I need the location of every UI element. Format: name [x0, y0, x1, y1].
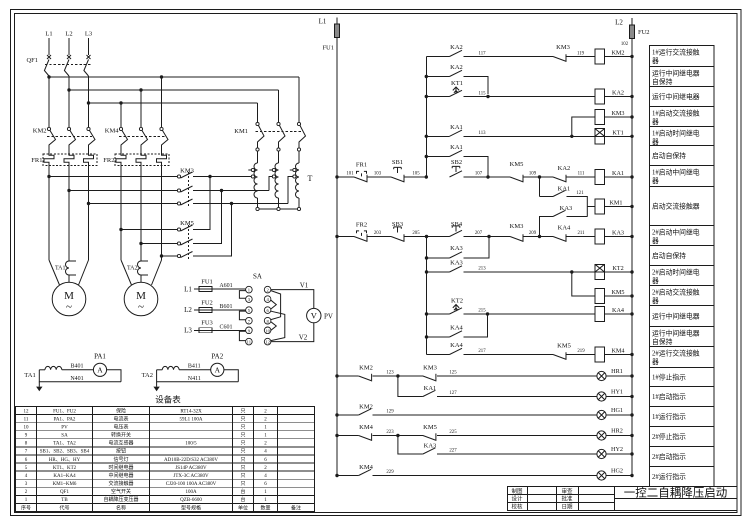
svg-text:KM2: KM2	[359, 365, 373, 372]
svg-text:KA4: KA4	[612, 307, 624, 314]
svg-text:QF1: QF1	[60, 490, 69, 495]
svg-text:KA2: KA2	[450, 44, 463, 51]
svg-text:2#启动时间继电: 2#启动时间继电	[652, 268, 700, 277]
svg-text:225: 225	[449, 430, 457, 435]
svg-text:223: 223	[386, 430, 394, 435]
function label box 9	[650, 226, 715, 246]
svg-text:FU2: FU2	[638, 29, 650, 36]
coil KM5	[572, 272, 595, 296]
svg-text:213: 213	[478, 267, 486, 272]
svg-text:100A: 100A	[185, 490, 197, 495]
svg-text:PV: PV	[324, 312, 333, 320]
svg-text:HR1: HR1	[611, 368, 623, 375]
wire SA right jumpers	[271, 300, 276, 309]
svg-text:台: 台	[240, 488, 245, 495]
svg-text:FR2: FR2	[356, 222, 367, 229]
svg-text:FR2: FR2	[103, 157, 114, 164]
svg-text:只: 只	[240, 457, 245, 463]
contact KA3 selfhold row	[427, 257, 450, 259]
contact KT1 delayed row115	[426, 96, 449, 98]
svg-text:KM1: KM1	[234, 128, 248, 135]
function label box 10	[650, 246, 715, 266]
autotransformer star bar	[258, 208, 300, 210]
wire KM5 input 3	[162, 255, 178, 257]
function label box 7	[650, 166, 715, 187]
svg-text:A: A	[97, 366, 103, 375]
svg-text:205: 205	[412, 231, 420, 236]
svg-text:100/5: 100/5	[185, 442, 197, 447]
contact KA1 row113	[426, 135, 449, 137]
function label box 18	[650, 407, 715, 427]
svg-text:KA3: KA3	[612, 230, 624, 237]
svg-text:自保持: 自保持	[652, 337, 673, 346]
svg-text:KA2: KA2	[558, 165, 571, 172]
svg-text:2#启动交流接触: 2#启动交流接触	[652, 288, 700, 297]
svg-text:TA2: TA2	[127, 266, 138, 272]
wire right control bus	[631, 39, 633, 476]
svg-text:HR2: HR2	[611, 428, 623, 435]
svg-text:器: 器	[652, 57, 659, 65]
svg-text:只: 只	[240, 416, 245, 422]
svg-text:电压表: 电压表	[113, 424, 128, 431]
wire KM5 output risers	[193, 177, 210, 230]
svg-text:器: 器	[652, 297, 659, 305]
svg-text:AD10B-22D/S32 AC380V: AD10B-22D/S32 AC380V	[164, 458, 218, 463]
svg-text:C601: C601	[219, 324, 232, 330]
wire secondary vertical 1	[425, 57, 427, 178]
svg-text:FU1: FU1	[201, 279, 213, 286]
wire bus phase L1	[49, 76, 299, 78]
wire left control bus	[336, 38, 338, 476]
svg-text:V: V	[311, 311, 318, 321]
svg-text:RT14-32X: RT14-32X	[180, 409, 202, 414]
svg-text:日期: 日期	[561, 504, 573, 511]
svg-text:运行中间继电器: 运行中间继电器	[652, 92, 700, 101]
contact KM4 no row229	[335, 474, 338, 477]
svg-text:V2: V2	[299, 334, 308, 342]
svg-text:123: 123	[386, 371, 394, 376]
coil KA3	[595, 229, 605, 244]
svg-text:KM5: KM5	[423, 424, 437, 431]
coil KM1	[587, 206, 595, 208]
function label box 3	[650, 87, 715, 107]
svg-text:B601: B601	[219, 304, 232, 310]
svg-text:227: 227	[449, 449, 457, 454]
svg-text:125: 125	[449, 371, 457, 376]
svg-text:KM3: KM3	[611, 110, 624, 117]
svg-text:~: ~	[66, 301, 72, 313]
svg-text:运行中间继电器: 运行中间继电器	[652, 311, 700, 320]
wire KM3 input 2	[69, 190, 177, 192]
svg-text:QZB-6600: QZB-6600	[180, 498, 202, 503]
contact KA1 row127	[398, 376, 423, 397]
svg-text:127: 127	[449, 391, 457, 396]
svg-text:KT2: KT2	[612, 265, 623, 272]
svg-text:只: 只	[240, 425, 245, 431]
svg-text:启动自保持: 启动自保持	[652, 151, 686, 160]
svg-text:KM4: KM4	[359, 424, 373, 431]
svg-text:KA4: KA4	[450, 325, 463, 332]
contact KA2 row117	[426, 56, 449, 58]
svg-text:HR、HG、HY: HR、HG、HY	[49, 458, 81, 463]
svg-text:11: 11	[24, 417, 29, 422]
svg-text:KA4: KA4	[558, 225, 571, 232]
function label box 14	[650, 327, 715, 347]
wire bus phase L3	[89, 102, 258, 104]
contactor KM1 interlink	[256, 131, 303, 133]
ground symbol PA1	[38, 382, 40, 387]
contact KM2 no row129	[335, 413, 338, 416]
svg-text:119: 119	[577, 52, 585, 57]
svg-text:2#运行指示: 2#运行指示	[652, 472, 686, 481]
svg-text:校核: 校核	[511, 503, 523, 511]
svg-text:FU3: FU3	[201, 320, 213, 327]
svg-text:信号灯: 信号灯	[113, 456, 128, 463]
svg-text:QF1: QF1	[26, 57, 38, 64]
svg-text:B401: B401	[70, 363, 83, 369]
lamp HR1	[597, 371, 606, 380]
svg-text:12: 12	[24, 409, 30, 414]
svg-text:1#运行交流接触: 1#运行交流接触	[652, 48, 700, 57]
svg-text:器: 器	[652, 138, 659, 146]
svg-text:L2: L2	[65, 31, 72, 38]
wire KM5 input 2	[141, 243, 177, 245]
svg-text:KM5: KM5	[180, 220, 194, 227]
svg-text:209: 209	[529, 231, 537, 236]
lamp HY1	[597, 392, 606, 401]
lamp HG1	[597, 410, 606, 419]
autotransformer tap stub 2	[269, 177, 272, 191]
function label box 16	[650, 368, 715, 387]
svg-text:L1: L1	[184, 286, 192, 294]
contact KA2 selfhold row	[426, 76, 449, 78]
svg-text:113: 113	[478, 131, 486, 136]
svg-text:KM2: KM2	[611, 50, 624, 57]
svg-text:中间继电器: 中间继电器	[108, 472, 133, 479]
contactor KM4 interlink	[119, 136, 165, 138]
svg-text:CJ20-100 100A AC380V: CJ20-100 100A AC380V	[166, 482, 217, 487]
svg-text:KM3: KM3	[180, 168, 194, 175]
wire KM3 output to tap3	[193, 203, 288, 205]
function label box 17	[650, 387, 715, 407]
wire secondary vertical 2	[426, 237, 428, 355]
svg-text:1#停止指示: 1#停止指示	[652, 372, 686, 381]
svg-text:109: 109	[529, 172, 537, 177]
wire KM2 feeders	[48, 77, 50, 127]
svg-text:KM4: KM4	[611, 348, 624, 355]
svg-text:SB1、SB2、SB3、SB4: SB1、SB2、SB3、SB4	[40, 450, 90, 455]
node 205 junction	[425, 235, 428, 238]
svg-text:自耦降压变压器: 自耦降压变压器	[103, 496, 138, 503]
svg-text:制图: 制图	[511, 487, 523, 495]
svg-text:SA: SA	[253, 273, 262, 281]
svg-text:12: 12	[265, 340, 270, 345]
node motor1 tap junctions	[47, 175, 50, 178]
svg-text:2#停止指示: 2#停止指示	[652, 432, 686, 441]
wire indicator row 223-225	[335, 434, 338, 437]
wire indicator row 123-125	[335, 374, 338, 377]
equipment table grid	[16, 407, 315, 512]
svg-text:N401: N401	[70, 376, 83, 382]
node motor2 tap junctions	[119, 228, 122, 231]
svg-text:只: 只	[240, 481, 245, 487]
svg-text:211: 211	[577, 231, 585, 236]
svg-text:自保持: 自保持	[652, 77, 673, 86]
svg-text:器: 器	[652, 358, 659, 366]
svg-text:SB1: SB1	[392, 159, 403, 166]
svg-text:L2: L2	[184, 306, 192, 314]
wire KM3 input 3	[89, 203, 178, 205]
svg-text:1#运行指示: 1#运行指示	[652, 412, 686, 421]
wire KM3 input 1	[49, 176, 177, 178]
svg-text:KM4: KM4	[359, 464, 373, 471]
svg-text:设计: 设计	[511, 495, 523, 503]
wire KM3 output to tap2	[193, 190, 269, 192]
svg-text:KM4: KM4	[105, 128, 119, 135]
svg-text:102: 102	[621, 42, 629, 47]
wire motor2 leads	[120, 166, 122, 261]
contact KA4 selfhold row	[427, 336, 450, 338]
svg-text:PA1、PA2: PA1、PA2	[54, 417, 76, 422]
svg-text:KA3: KA3	[450, 245, 463, 252]
svg-text:FU1、FU2: FU1、FU2	[53, 409, 76, 414]
motor M2	[124, 282, 158, 316]
svg-text:运行中间继电器: 运行中间继电器	[652, 329, 700, 338]
svg-text:启动自保持: 启动自保持	[652, 251, 686, 260]
svg-text:设备表: 设备表	[155, 395, 181, 405]
wire control row 101-105	[335, 175, 338, 178]
coil KM4	[595, 347, 605, 362]
function label box 19	[650, 427, 715, 447]
wire KM5 input 1	[121, 229, 177, 231]
svg-text:序号: 序号	[21, 504, 31, 511]
svg-text:TA1: TA1	[55, 266, 66, 272]
svg-text:KT1、KT2: KT1、KT2	[53, 466, 77, 471]
svg-text:217: 217	[478, 349, 486, 354]
motor M1	[52, 282, 86, 316]
svg-text:PV: PV	[61, 426, 68, 431]
svg-text:V1: V1	[300, 282, 309, 290]
ground symbol PA2	[156, 382, 158, 387]
svg-text:电流表: 电流表	[113, 415, 128, 422]
svg-text:FU1: FU1	[322, 45, 334, 52]
svg-text:器: 器	[652, 277, 659, 285]
svg-text:转换开关: 转换开关	[111, 432, 131, 439]
svg-text:L3: L3	[85, 31, 92, 38]
svg-text:运行中间继电器: 运行中间继电器	[652, 69, 700, 78]
contactor KM3 interlink	[188, 172, 190, 208]
svg-text:L1: L1	[45, 31, 52, 38]
svg-text:59L1 100A: 59L1 100A	[180, 417, 203, 422]
svg-text:KM1~KM6: KM1~KM6	[53, 482, 77, 487]
lamp HY2	[597, 449, 606, 458]
svg-text:B411: B411	[188, 363, 201, 369]
svg-text:只: 只	[240, 465, 245, 471]
svg-text:只: 只	[240, 408, 245, 414]
svg-text:型号规格: 型号规格	[181, 504, 201, 511]
svg-text:203: 203	[374, 231, 382, 236]
svg-text:时间继电器: 时间继电器	[108, 464, 133, 471]
svg-text:L2: L2	[615, 19, 623, 27]
svg-text:L1: L1	[319, 18, 327, 26]
svg-text:KM3: KM3	[423, 365, 437, 372]
svg-text:N411: N411	[188, 376, 201, 382]
svg-text:只: 只	[240, 473, 245, 479]
svg-text:KM3: KM3	[556, 44, 570, 51]
svg-text:PA1: PA1	[94, 353, 106, 361]
wire KM3 coil feed	[572, 117, 595, 136]
svg-text:101: 101	[346, 172, 354, 177]
svg-text:11: 11	[247, 340, 252, 345]
svg-text:T: T	[308, 174, 313, 183]
svg-text:2#启动中间继电: 2#启动中间继电	[652, 228, 700, 237]
svg-text:只: 只	[240, 449, 245, 455]
svg-text:KT2: KT2	[451, 298, 463, 305]
svg-text:10: 10	[24, 426, 30, 431]
svg-text:TA1: TA1	[24, 372, 35, 379]
svg-text:KA1~KA4: KA1~KA4	[53, 474, 76, 479]
svg-text:只: 只	[240, 433, 245, 439]
svg-text:备注: 备注	[291, 504, 301, 511]
svg-text:KT1: KT1	[612, 129, 623, 136]
svg-text:117: 117	[478, 52, 486, 57]
wire bus phase L2	[69, 89, 279, 91]
svg-text:FU2: FU2	[201, 300, 213, 307]
coil KA2	[595, 89, 605, 104]
svg-text:10: 10	[265, 328, 270, 333]
svg-text:SA: SA	[61, 434, 68, 439]
svg-text:名称: 名称	[116, 504, 126, 511]
function label box 2	[650, 67, 715, 87]
coil KA1	[595, 169, 605, 184]
svg-text:空气开关: 空气开关	[111, 488, 131, 495]
svg-text:107: 107	[475, 172, 483, 177]
svg-text:器: 器	[652, 177, 659, 185]
breaker QF1 interlink	[45, 64, 91, 66]
svg-text:KA3: KA3	[560, 205, 573, 212]
function label box 8	[650, 187, 715, 226]
svg-text:KM5: KM5	[611, 289, 624, 296]
svg-text:A601: A601	[219, 283, 232, 289]
svg-text:229: 229	[386, 470, 394, 475]
svg-text:FR1: FR1	[356, 162, 367, 169]
svg-text:HG2: HG2	[611, 468, 623, 475]
node tap line junctions	[208, 175, 211, 178]
svg-text:1#启动指示: 1#启动指示	[652, 392, 686, 401]
svg-text:PA2: PA2	[211, 353, 223, 361]
contactor KM5 interlink	[188, 225, 190, 261]
svg-text:TB: TB	[61, 498, 68, 503]
function label box 13	[650, 306, 715, 327]
svg-text:批准: 批准	[561, 495, 573, 503]
svg-text:TA1、TA2: TA1、TA2	[53, 442, 76, 447]
svg-text:KM5: KM5	[510, 161, 524, 168]
svg-text:105: 105	[412, 172, 420, 177]
function label box 11	[650, 266, 715, 286]
svg-text:KA1: KA1	[612, 170, 624, 177]
svg-text:HY1: HY1	[611, 389, 623, 396]
contact KA3 row227	[398, 436, 423, 455]
svg-text:129: 129	[386, 410, 394, 415]
wire SA left jumpers	[239, 291, 245, 299]
svg-text:数量: 数量	[260, 504, 270, 511]
svg-text:1#启动交流接触: 1#启动交流接触	[652, 109, 700, 118]
svg-text:按钮: 按钮	[116, 448, 126, 455]
lamp HR2	[597, 431, 606, 440]
wire control row 203-211	[335, 235, 338, 238]
svg-text:KA3: KA3	[450, 260, 463, 267]
svg-text:KA2: KA2	[450, 64, 463, 71]
svg-text:单位: 单位	[238, 504, 248, 511]
svg-text:2#启动指示: 2#启动指示	[652, 452, 686, 461]
svg-text:103: 103	[374, 172, 382, 177]
contact KA1 branch row121	[539, 177, 541, 197]
svg-text:SB2: SB2	[451, 159, 462, 166]
svg-text:保险: 保险	[116, 407, 126, 414]
coil KM2	[595, 49, 605, 64]
svg-text:台: 台	[240, 496, 245, 503]
svg-text:121: 121	[576, 191, 584, 196]
wire motor1 leads	[48, 166, 50, 261]
coil KT1 time relay	[595, 129, 605, 137]
svg-text:KT1: KT1	[451, 80, 463, 87]
svg-text:KM3: KM3	[510, 223, 524, 230]
svg-text:启动交流接触器: 启动交流接触器	[652, 201, 700, 210]
svg-text:KM5: KM5	[557, 343, 571, 350]
svg-text:JTX-3C AC380V: JTX-3C AC380V	[173, 474, 209, 479]
function label box 1	[650, 46, 715, 67]
svg-text:1#启动时间继电: 1#启动时间继电	[652, 129, 700, 138]
contact KA1 selfhold row	[426, 156, 449, 158]
title block	[508, 487, 738, 511]
contact KA3 branch row	[540, 217, 554, 237]
svg-text:KM2: KM2	[33, 128, 47, 135]
function label box 12	[650, 286, 715, 306]
svg-text:KA1: KA1	[450, 144, 463, 151]
function label box 5	[650, 127, 715, 146]
svg-text:KA2: KA2	[612, 90, 624, 97]
contact KT2 delayed row215	[427, 313, 450, 315]
coil KT2 time relay	[595, 264, 605, 272]
coil KM3	[595, 109, 605, 124]
voltmeter PV	[307, 308, 321, 322]
svg-text:2#运行交流接触: 2#运行交流接触	[652, 349, 700, 358]
function label box 15	[650, 347, 715, 368]
wire KM1 feeders	[298, 77, 300, 123]
svg-text:一控二自耦降压启动: 一控二自耦降压启动	[624, 486, 728, 500]
svg-text:只: 只	[240, 441, 245, 447]
coil KA4	[595, 306, 605, 321]
svg-text:1#启动中间继电: 1#启动中间继电	[652, 168, 700, 177]
lamp HG2	[597, 471, 606, 480]
svg-text:代号: 代号	[59, 504, 69, 511]
function label box 6	[650, 146, 715, 166]
svg-text:审查: 审查	[561, 487, 573, 495]
svg-text:207: 207	[475, 231, 483, 236]
svg-text:HG1: HG1	[611, 407, 623, 414]
svg-text:电流互感器: 电流互感器	[108, 440, 133, 447]
svg-text:A: A	[215, 366, 221, 375]
function label box 4	[650, 107, 715, 127]
svg-text:219: 219	[577, 349, 585, 354]
svg-text:215: 215	[478, 309, 486, 314]
wire KM4 feeders	[161, 77, 163, 127]
node 105 junction	[425, 175, 428, 178]
svg-text:交流接触器: 交流接触器	[108, 480, 133, 487]
svg-text:器: 器	[652, 118, 659, 126]
svg-text:FR1: FR1	[31, 157, 42, 164]
svg-text:115: 115	[478, 92, 486, 97]
